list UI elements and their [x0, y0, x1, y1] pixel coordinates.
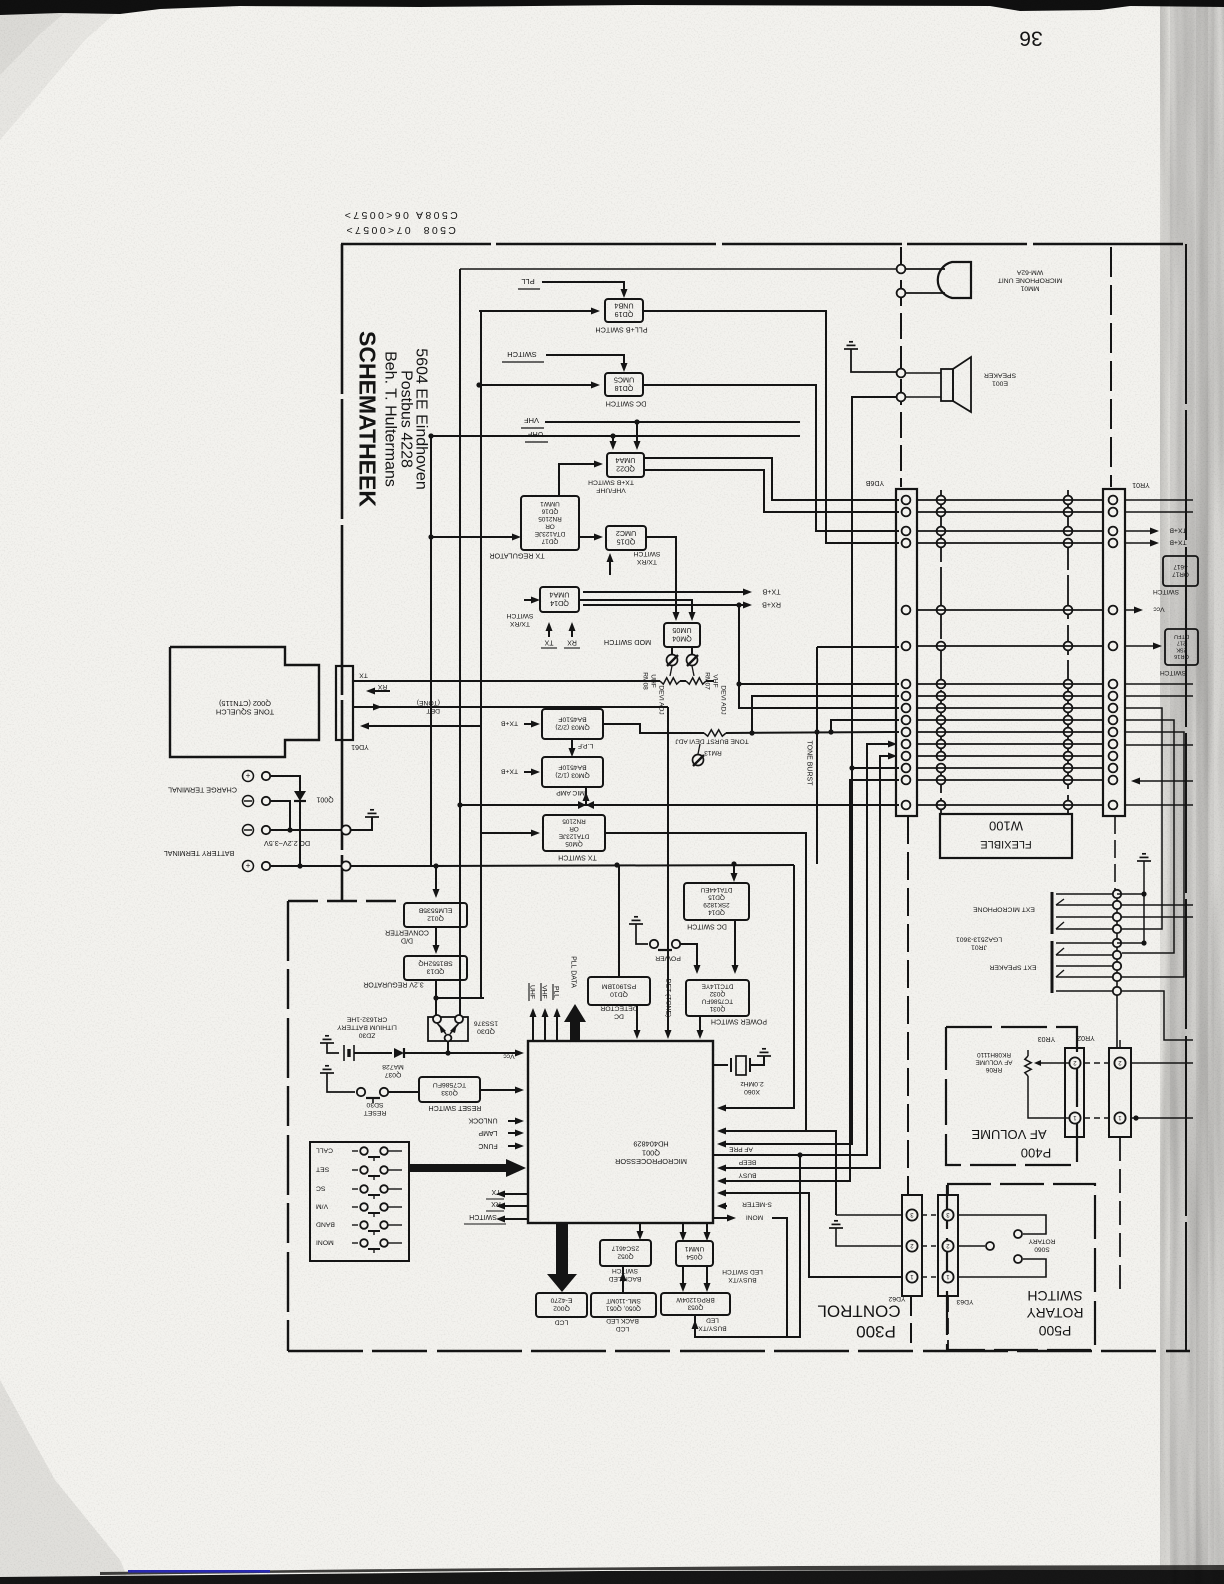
- pin YR01 y696: [1109, 692, 1118, 701]
- svg-text:TX: TX: [544, 639, 553, 646]
- w100 left rail crossing y744: [937, 740, 946, 749]
- connector YR03: [1065, 1048, 1084, 1137]
- wire into tx regulator: [431, 536, 517, 538]
- jack wiring column: [1116, 894, 1118, 991]
- svg-text:TX+B: TX+B: [1169, 539, 1187, 546]
- svg-text:TONE SQUELCHQ002 (CTN115): TONE SQUELCHQ002 (CTN115): [216, 699, 274, 717]
- dc detector QD10: [588, 977, 650, 1005]
- w100 right rail crossing y610: [1064, 606, 1073, 615]
- tx switch QM05: [543, 815, 605, 851]
- wires YR01 to right: [1125, 499, 1193, 501]
- wire rail corner down: [722, 865, 794, 1108]
- svg-text:RESETSD30: RESETSD30: [364, 1101, 387, 1116]
- dc switch QD18: [605, 373, 643, 396]
- pin YR01 y708: [1109, 704, 1118, 713]
- wire - to rail: [271, 801, 290, 830]
- wire bus into QD19: [479, 310, 596, 312]
- svg-text:RX+B: RX+B: [762, 600, 781, 609]
- w100 left rail crossing y696: [937, 692, 946, 701]
- wire QD18 out to connector: [643, 385, 899, 531]
- wire PLL to QD19: [542, 282, 624, 295]
- w100 right rail crossing y684: [1064, 680, 1073, 689]
- outer border bottom edge: [288, 1350, 1190, 1353]
- outer border right edge: [1185, 244, 1187, 1351]
- main/control boundary dashed with wire crossings: [900, 247, 902, 487]
- svg-text:UHF: UHF: [527, 430, 543, 439]
- mic amp QM03 1/2: [542, 757, 603, 787]
- ground battery minus: [365, 810, 379, 817]
- jack ground: [1137, 854, 1151, 861]
- pin YR01 y780: [1109, 776, 1118, 785]
- wire TX+B out: [583, 591, 745, 593]
- svg-text:P300: P300: [856, 1322, 896, 1341]
- wire detector input: [618, 865, 620, 977]
- svg-text:ROTARY: ROTARY: [1026, 1305, 1084, 1321]
- pin YD6B y780: [902, 776, 911, 785]
- svg-text:AF VOLUME: AF VOLUME: [971, 1127, 1046, 1142]
- links YD62-YD63: [922, 1214, 938, 1216]
- svg-text:FUNC: FUNC: [478, 1142, 497, 1149]
- svg-text:EXT SPEAKER: EXT SPEAKER: [989, 964, 1036, 971]
- pin YD6B y646: [902, 642, 911, 651]
- svg-text:W100: W100: [989, 818, 1023, 833]
- bus wire V3 to D/D converter: [430, 436, 432, 866]
- vhf/uhf tx+b switch QD22: [607, 453, 644, 477]
- pin YD6B y500: [902, 496, 911, 505]
- connector YD63: [938, 1195, 958, 1296]
- w100 left rail crossing y805: [937, 801, 946, 810]
- wire Q012 to QD13: [435, 927, 437, 950]
- wire YD61 4th pin: [369, 725, 481, 727]
- svg-text:Beh. T. Hultermans: Beh. T. Hultermans: [381, 351, 398, 487]
- svg-text:YD62: YD62: [888, 1295, 905, 1302]
- svg-text:TX+B: TX+B: [762, 587, 780, 596]
- svg-text:TX+B: TX+B: [500, 768, 518, 775]
- 3.2v regulator QD13: [404, 956, 467, 980]
- svg-text:RX: RX: [377, 683, 387, 690]
- rotated schematic (drawn readable, flipped 180): [164, 26, 1198, 1351]
- svg-text:POWER: POWER: [655, 955, 681, 962]
- tone burst vertical: [816, 647, 818, 864]
- svg-text:QD22UMA4: QD22UMA4: [616, 456, 636, 474]
- pin YR01 y531: [1109, 527, 1118, 536]
- d/d converter Q012: [404, 903, 467, 927]
- wire VHF rail: [545, 421, 800, 423]
- pin YD6B y684: [902, 680, 911, 689]
- wires speaker: [906, 372, 941, 374]
- wires QD15/QM04: [646, 537, 676, 617]
- svg-text:VHF: VHF: [524, 416, 539, 425]
- svg-text:3.2V REGURATOR: 3.2V REGURATOR: [363, 981, 423, 988]
- svg-text:QM03 (2/2)BA4510F: QM03 (2/2)BA4510F: [555, 716, 589, 731]
- wire battery minus: [271, 829, 341, 831]
- tone burst trimmer RM13: [693, 755, 704, 766]
- svg-text:Q002E-4270: Q002E-4270: [550, 1297, 572, 1312]
- reset switch ic Q033: [419, 1077, 480, 1102]
- jack column node y905: [1113, 901, 1121, 909]
- dashed boundary above YR01: [1110, 247, 1112, 487]
- top-left gray corner: [0, 0, 130, 140]
- links YR02-YR03: [1084, 1062, 1109, 1064]
- wire detector to microprocessor: [636, 1005, 638, 1035]
- svg-text:EXT MICROPHONE: EXT MICROPHONE: [973, 906, 1035, 913]
- pin YR01 y720: [1109, 716, 1118, 725]
- w100 left rail crossing y500: [937, 496, 946, 505]
- svg-text:PLL+B SWITCH: PLL+B SWITCH: [595, 325, 647, 334]
- wires jack exits right: [1122, 904, 1193, 906]
- bottom-left gray corner: [0, 1380, 130, 1584]
- reset switch SD30: [357, 1088, 365, 1096]
- pin YD6B y720: [902, 716, 911, 725]
- svg-text:Postbus 4228: Postbus 4228: [397, 370, 414, 468]
- svg-text:DC 2.2V~3.5V: DC 2.2V~3.5V: [264, 839, 310, 848]
- mod switch QM04: [664, 623, 700, 647]
- wire QM05 out: [605, 833, 806, 1131]
- svg-text:CALL: CALL: [316, 1147, 333, 1154]
- bus wire V2: [480, 311, 482, 998]
- w100 left rail crossing y646: [937, 642, 946, 651]
- wire lpf to tone burst adj: [603, 724, 704, 733]
- low pass filter QM03 2/2: [542, 709, 603, 739]
- power switch ic Q031/Q032: [686, 980, 749, 1016]
- w100 right rail crossing y744: [1064, 740, 1073, 749]
- svg-text:LAMP: LAMP: [478, 1129, 497, 1136]
- w100 flexible cable box: [940, 814, 1072, 858]
- battery - terminal: [243, 825, 254, 836]
- jack column node y929: [1113, 925, 1121, 933]
- svg-text:SWITCH: SWITCH: [1160, 669, 1186, 676]
- svg-text:DEVI ADJ: DEVI ADJ: [720, 685, 727, 714]
- pin YR01 y512: [1109, 508, 1118, 517]
- svg-text:MOD SWITCH: MOD SWITCH: [604, 638, 651, 647]
- wire bus into QD18: [479, 384, 596, 386]
- diode Q037 MA728: [394, 1048, 404, 1058]
- wire TX+B right 2: [1125, 542, 1152, 544]
- svg-text:MONI: MONI: [316, 1239, 334, 1246]
- svg-text:BEEP: BEEP: [738, 1159, 756, 1166]
- svg-text:YD6B: YD6B: [866, 479, 885, 486]
- svg-text:SWITCH: SWITCH: [1153, 588, 1179, 595]
- wire long rail y805: [460, 804, 899, 806]
- w100 right rail crossing y543: [1064, 539, 1073, 548]
- wire tap to pin 720: [828, 729, 833, 734]
- w100 left rail: [940, 490, 942, 814]
- w100 left rail crossing y708: [937, 704, 946, 713]
- svg-text:L.P.F: L.P.F: [578, 742, 593, 749]
- w100 left rail crossing y512: [937, 508, 946, 517]
- power switch contacts: [629, 917, 643, 924]
- w100 right rail crossing y756: [1064, 752, 1073, 761]
- w100 right rail crossing y500: [1064, 496, 1073, 505]
- svg-text:YD61: YD61: [351, 743, 369, 750]
- signal into microprocessor right 1: [722, 1131, 836, 1215]
- svg-text:MIC AMP: MIC AMP: [556, 789, 585, 796]
- signal BUSY: [722, 780, 899, 1181]
- pin YR01 y646: [1109, 642, 1118, 651]
- diode pack QD30 1SS376: [428, 1017, 468, 1041]
- pin YD6B y543: [902, 539, 911, 548]
- jack column node y966: [1113, 962, 1121, 970]
- svg-text:PLL: PLL: [553, 986, 560, 998]
- microprocessor Q001 HD404829: [528, 1041, 713, 1223]
- ext speaker jack: [1051, 941, 1054, 993]
- lcd Q002 E-4270: [536, 1293, 587, 1317]
- pin YR01 y500: [1109, 496, 1118, 505]
- jack column node y943: [1113, 939, 1121, 947]
- wires microphone: [906, 268, 945, 270]
- svg-text:TONE BURST: TONE BURST: [805, 741, 812, 787]
- svg-text:TX: TX: [359, 672, 368, 679]
- pin YD6B y768: [902, 764, 911, 773]
- w100 right rail crossing y805: [1064, 801, 1073, 810]
- svg-text:S-METER: S-METER: [742, 1201, 772, 1208]
- svg-text:YR01: YR01: [1132, 481, 1150, 488]
- wire arrow into YR01: [1136, 780, 1193, 782]
- wires YR01 right exits: [1125, 683, 1193, 685]
- YD63 stubs to P500 border: [947, 1184, 949, 1195]
- battery cell symbol: [327, 1043, 339, 1053]
- w100 left rail crossing y684: [937, 680, 946, 689]
- wire rail into dc switch: [733, 864, 735, 878]
- pin YR01 y768: [1109, 764, 1118, 773]
- signal BEEP: [722, 756, 893, 1168]
- svg-text:DC SWITCH: DC SWITCH: [687, 923, 727, 930]
- jack column node y955: [1113, 951, 1121, 959]
- signal MONI: [713, 1217, 728, 1219]
- svg-text:SET: SET: [316, 1166, 329, 1173]
- svg-text:P400: P400: [1021, 1145, 1051, 1160]
- wire tx reg to QD15: [579, 536, 599, 538]
- svg-text:+: +: [245, 771, 250, 780]
- speaker E001: [941, 369, 953, 401]
- pll-b switch QD19: [605, 299, 643, 322]
- signal RX out: [500, 1205, 528, 1207]
- svg-text:VHF: VHF: [541, 985, 548, 999]
- svg-text:DC SWITCH: DC SWITCH: [606, 399, 647, 408]
- fat arrow PLL DATA: [564, 1004, 586, 1041]
- w100 left rail crossing y780: [937, 776, 946, 785]
- wire lpf-micamp: [571, 739, 573, 753]
- pin YD6B y732: [902, 728, 911, 737]
- svg-text:QD15UMC2: QD15UMC2: [616, 529, 636, 547]
- pin YD6B y610: [902, 606, 911, 615]
- svg-text:FLEXIBLE: FLEXIBLE: [980, 838, 1031, 850]
- wires microprocessor to Q052/Q054: [639, 1223, 641, 1236]
- svg-text:QM03 (1/2)BA4510F: QM03 (1/2)BA4510F: [555, 764, 589, 779]
- TX RX arrows under QD14: [548, 626, 550, 637]
- wires QD22 out to connector: [644, 458, 899, 500]
- wire tone burst top: [817, 646, 899, 648]
- pin YD6B y756: [902, 752, 911, 761]
- deviation trimmer RM07: [691, 647, 693, 654]
- pin YD6B y512: [902, 508, 911, 517]
- wire Q052 to Q050: [622, 1266, 624, 1293]
- svg-text:SC: SC: [316, 1185, 326, 1192]
- svg-text:SWITCH: SWITCH: [1027, 1288, 1082, 1304]
- svg-text:TX+B: TX+B: [500, 720, 518, 727]
- wire D/D input drop: [435, 866, 437, 893]
- P400 AF VOLUME board outline dashed: [946, 1027, 1077, 1165]
- blue pen line: [128, 1570, 270, 1573]
- svg-text:+: +: [245, 861, 250, 870]
- svg-text:C508 07<0057>: C508 07<0057>: [344, 224, 456, 236]
- svg-text:V/M: V/M: [316, 1203, 328, 1210]
- box QR16 right edge: [1165, 629, 1198, 665]
- wire TX+B right 1: [1125, 530, 1152, 532]
- svg-text:Q001: Q001: [316, 796, 333, 803]
- connector YR02: [1109, 1048, 1131, 1137]
- svg-text:RESET SWITCH: RESET SWITCH: [429, 1104, 482, 1111]
- svg-text:RX: RX: [491, 1200, 501, 1207]
- wire QD13 down: [435, 980, 437, 1017]
- connector YD61: [336, 666, 353, 740]
- jack column node y917: [1113, 913, 1121, 921]
- wires YR02 exits: [1131, 1062, 1193, 1064]
- w100 right rail crossing y512: [1064, 508, 1073, 517]
- svg-text:TX+B: TX+B: [1169, 527, 1187, 534]
- connector YD62: [902, 1195, 922, 1296]
- wire tap to pin 684: [736, 681, 741, 686]
- svg-text:YR03: YR03: [1038, 1035, 1056, 1042]
- connector YD6B: [896, 489, 917, 816]
- wire RX+B out: [583, 604, 745, 606]
- wire QD30 to Vcc rail: [447, 1041, 449, 1053]
- svg-text:CHARGE TERMINAL: CHARGE TERMINAL: [168, 785, 237, 794]
- wire QD14 to QM04: [579, 600, 692, 617]
- fat bus arrow switches to microprocessor: [409, 1159, 526, 1177]
- w100 right rail crossing y696: [1064, 692, 1073, 701]
- svg-text:DET (TONE): DET (TONE): [665, 979, 672, 1018]
- lcd back led Q050 Q051: [591, 1293, 656, 1317]
- svg-text:QD14UMA4: QD14UMA4: [550, 591, 570, 609]
- svg-text:Q050, Q051SML-110MT: Q050, Q051SML-110MT: [606, 1297, 641, 1312]
- connector YR01: [1103, 489, 1125, 816]
- battery + terminal: [243, 861, 254, 872]
- switch box right edge QR17: [1163, 556, 1198, 586]
- svg-text:36: 36: [1019, 26, 1042, 49]
- w100 left rail crossing y610: [937, 606, 946, 615]
- top black band: [0, 0, 1224, 15]
- P300 board outline dashed: [287, 901, 289, 1351]
- svg-text:POWER SWITCH: POWER SWITCH: [711, 1018, 767, 1025]
- svg-text:TX/RXSWITCH: TX/RXSWITCH: [507, 612, 534, 627]
- signal VHF out top: [544, 1012, 546, 1041]
- signal wire speaker feed: [722, 397, 897, 1144]
- svg-text:QD19UNB4: QD19UNB4: [614, 302, 633, 320]
- svg-text:CONTROL: CONTROL: [817, 1301, 900, 1320]
- wire Q031 to microprocessor: [699, 1016, 701, 1035]
- svg-text:DEVI ADJ: DEVI ADJ: [658, 685, 665, 714]
- wire Q033 to microprocessor: [480, 1089, 518, 1091]
- signal TX out: [500, 1193, 528, 1195]
- wire RX+B to connector pin: [739, 605, 899, 708]
- ext microphone jack: [1051, 892, 1054, 934]
- w100 right rail crossing y646: [1064, 642, 1073, 651]
- tx/rx switch QD15: [606, 526, 646, 550]
- diode Q001: [271, 776, 300, 791]
- svg-text:PLL: PLL: [521, 277, 534, 286]
- wire audio line through trimmers: [353, 680, 660, 682]
- wire YD61 DET(TONE): [353, 706, 668, 708]
- fat arrow microprocessor to LCD: [547, 1223, 577, 1292]
- jack column node y991: [1113, 987, 1121, 995]
- svg-text:TX REGULATOR: TX REGULATOR: [489, 551, 544, 560]
- jack column node y977: [1113, 973, 1121, 981]
- svg-text:BATTERY TERMINAL: BATTERY TERMINAL: [164, 849, 235, 858]
- pin YD6B y708: [902, 704, 911, 713]
- ground lithium 2nd: [320, 1066, 334, 1073]
- deviation trimmer RM08: [671, 647, 673, 654]
- signal UHF out top: [532, 1012, 534, 1041]
- pin YR01 y805: [1109, 801, 1118, 810]
- wire into QD22: [559, 464, 600, 496]
- svg-text:LCD: LCD: [555, 1319, 569, 1326]
- pin YD6B y744: [902, 740, 911, 749]
- wire Vcc into microprocessor: [515, 1050, 524, 1057]
- w100 right rail crossing y780: [1064, 776, 1073, 785]
- wire DC switch to Q031: [734, 920, 736, 969]
- wire battery plus rail: [271, 865, 341, 867]
- wire mic top rail: [460, 268, 897, 270]
- svg-text:UNLOCK: UNLOCK: [468, 1117, 498, 1124]
- w100 right rail: [1067, 490, 1069, 814]
- wire YD61 RX: [372, 690, 390, 692]
- wire Q053 return: [695, 1155, 800, 1337]
- wire SWITCH to QD18: [546, 355, 624, 369]
- signal AF PRE: [713, 744, 893, 1155]
- pin YR01 y732: [1109, 728, 1118, 737]
- w100 right rail crossing y708: [1064, 704, 1073, 713]
- svg-text:C508A 06<0057>: C508A 06<0057>: [342, 209, 457, 221]
- tx/rx switch QD14: [540, 587, 579, 612]
- wires into YD62: [836, 1214, 902, 1216]
- w100 right rail crossing y768: [1064, 764, 1073, 773]
- charge terminal + circle: [243, 771, 254, 782]
- svg-text:SWITCH: SWITCH: [507, 350, 537, 359]
- svg-text:QD18UMC5: QD18UMC5: [614, 376, 634, 394]
- back led switch Q052: [600, 1240, 651, 1266]
- signal S-METER: [722, 1205, 727, 1207]
- rotary encoder S060: [958, 1215, 1046, 1234]
- ground speaker return: [844, 342, 858, 349]
- w100 right rail crossing y720: [1064, 716, 1073, 725]
- w100 right rail crossing y732: [1064, 728, 1073, 737]
- bus wire V1: [459, 269, 461, 1020]
- wire tap to pin 696: [749, 730, 754, 735]
- wires across w100: [917, 499, 1103, 501]
- svg-text:QM04UM05: QM04UM05: [672, 626, 692, 644]
- svg-text:AF PRE: AF PRE: [728, 1146, 752, 1153]
- wire jack column to YR02: [1119, 1040, 1121, 1048]
- signal DET TONE into microprocessor: [667, 707, 669, 1035]
- w100 left rail crossing y720: [937, 716, 946, 725]
- microphone MM01 WM-62A: [938, 262, 971, 298]
- svg-text:RM13: RM13: [704, 749, 722, 756]
- bottom dark band: [0, 1569, 1224, 1584]
- pin YD6B y531: [902, 527, 911, 536]
- w100 left rail crossing y543: [937, 539, 946, 548]
- svg-text:Q054UMM1: Q054UMM1: [684, 1245, 704, 1260]
- busy/tx led Q053: [661, 1293, 730, 1315]
- svg-text:RX: RX: [567, 639, 577, 646]
- svg-text:QR174617: QR174617: [1172, 563, 1189, 578]
- wire into QR16 box: [1125, 645, 1156, 647]
- volume pot RR06: [1025, 1056, 1031, 1076]
- pin YR01 y744: [1109, 740, 1118, 749]
- dc switch QD14/QD15 upper: [684, 883, 749, 920]
- outer border left edge: [341, 244, 344, 901]
- w100 left rail crossing y732: [937, 728, 946, 737]
